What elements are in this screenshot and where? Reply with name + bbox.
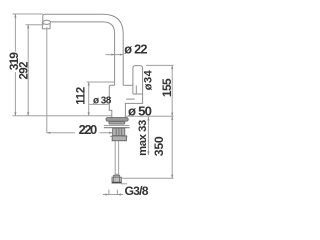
- svg-text:max 33: max 33: [137, 120, 149, 156]
- aerator: [42, 20, 50, 29]
- body: [109, 85, 142, 117]
- counter lines: [104, 126, 130, 128]
- wire spout outline: [43, 14, 123, 85]
- ext line top 319: [12, 13, 43, 15]
- svg-text:ø34: ø34: [143, 69, 155, 90]
- dim 220 ext from aerator: [46, 27, 48, 133]
- svg-text:292: 292: [18, 62, 30, 80]
- svg-text:155: 155: [160, 78, 174, 97]
- dim line 292: [27, 25, 29, 116]
- mounting nut: [110, 136, 127, 141]
- hose end threads: [114, 174, 119, 177]
- bottom dim line: [103, 190, 123, 195]
- counter ref line right: [125, 115, 173, 117]
- label 319: [9, 52, 20, 73]
- svg-text:112: 112: [75, 87, 88, 105]
- ext bottom 350: [122, 177, 174, 179]
- base flange: [106, 118, 128, 124]
- threaded shank: [113, 128, 125, 136]
- dim line 112: [88, 82, 90, 116]
- hose: [115, 141, 118, 174]
- dim line 220: [47, 132, 113, 134]
- counter ref line left: [12, 115, 111, 117]
- svg-text:350: 350: [152, 136, 166, 156]
- svg-text:G3/8: G3/8: [125, 184, 149, 198]
- arrows verticals: [14, 14, 90, 116]
- svg-text:220: 220: [79, 122, 97, 137]
- ext line top 292: [26, 24, 45, 26]
- svg-text:ø 22: ø 22: [124, 42, 147, 57]
- handle: [133, 66, 143, 94]
- connector nut G3/8: [112, 177, 121, 183]
- connector collar: [113, 175, 119, 177]
- G3/8 leader: [121, 183, 127, 185]
- ext line 112 top: [87, 81, 115, 83]
- dim line max33: [147, 117, 149, 155]
- dim line 155: [171, 65, 173, 116]
- ext handle top: [146, 64, 174, 66]
- dim line 350: [171, 116, 173, 178]
- dim line 319: [14, 14, 16, 116]
